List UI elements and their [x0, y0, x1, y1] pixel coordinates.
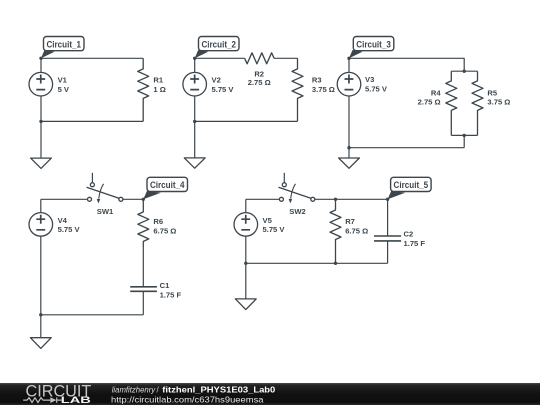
wire: [142, 292, 144, 315]
svg-text:C2: C2: [404, 229, 414, 238]
svg-text:3.75 Ω: 3.75 Ω: [312, 85, 335, 94]
wire: [40, 236, 42, 314]
svg-text:R1: R1: [153, 76, 163, 85]
svg-text:R7: R7: [345, 217, 355, 226]
switch SW1: [87, 173, 123, 204]
wire: [41, 314, 144, 316]
junction: [39, 120, 42, 123]
svg-text:5.75 V: 5.75 V: [263, 225, 286, 234]
node D (Circuit_4 net): [142, 198, 145, 201]
wire: [349, 147, 464, 149]
svg-text:SW2: SW2: [289, 207, 305, 216]
wire: [41, 120, 143, 122]
voltage source V3: [337, 72, 361, 96]
wire: [348, 58, 350, 72]
svg-text:1 Ω: 1 Ω: [153, 85, 165, 94]
svg-text:5 V: 5 V: [58, 85, 70, 94]
svg-text:6.75 Ω: 6.75 Ω: [153, 226, 176, 235]
svg-text:V1: V1: [58, 76, 68, 85]
svg-text:1.75 F: 1.75 F: [404, 239, 426, 248]
capacitor C2: [374, 236, 401, 241]
wire: [245, 236, 247, 263]
voltage source V1: [29, 72, 53, 96]
wire: [41, 57, 143, 59]
wire: [195, 120, 298, 122]
svg-text:fitzhenl_PHYS1E03_Lab0: fitzhenl_PHYS1E03_Lab0: [162, 385, 276, 394]
junction: [244, 262, 247, 265]
resistor R4: [446, 71, 457, 135]
ground: [184, 121, 205, 168]
svg-text:R3: R3: [312, 76, 322, 85]
svg-text:Circuit_4: Circuit_4: [150, 180, 185, 190]
wire: [451, 70, 477, 72]
svg-text:SW1: SW1: [97, 207, 114, 216]
svg-text:http://circuitlab.com/c637hs9u: http://circuitlab.com/c637hs9ueemsa: [111, 394, 264, 404]
wire: [315, 198, 388, 200]
wire: [246, 262, 388, 264]
node B (Circuit_2 net): [193, 57, 196, 60]
svg-text:Circuit_2: Circuit_2: [201, 39, 236, 49]
svg-text:6.75 Ω: 6.75 Ω: [345, 227, 368, 236]
wire: [387, 241, 389, 263]
svg-text:2.75 Ω: 2.75 Ω: [418, 98, 441, 107]
net label Circuit_2: [195, 37, 239, 59]
voltage source V4: [29, 213, 53, 237]
resistor R2: [245, 53, 274, 64]
svg-text:1.75 F: 1.75 F: [160, 291, 182, 300]
resistor R5: [472, 71, 483, 135]
wire: [274, 57, 297, 59]
wire: [246, 198, 280, 200]
svg-text:LAB: LAB: [61, 395, 92, 405]
svg-text:R5: R5: [487, 88, 497, 97]
node C (Circuit_3 net): [347, 57, 350, 60]
svg-text:5.75 V: 5.75 V: [212, 85, 235, 94]
net label Circuit_5: [388, 177, 432, 199]
svg-text:R4: R4: [431, 88, 441, 97]
voltage source V2: [183, 72, 207, 96]
net label Circuit_3: [349, 37, 394, 59]
ground: [235, 263, 256, 309]
switch SW2: [279, 173, 315, 204]
footer bar: [0, 383, 540, 405]
wire: [348, 96, 350, 148]
junction: [463, 134, 466, 137]
wire: [195, 57, 245, 59]
wire: [463, 135, 465, 147]
resistor R3: [292, 58, 303, 121]
wire: [387, 199, 389, 236]
svg-text:Circuit_1: Circuit_1: [46, 39, 81, 49]
svg-text:Circuit_3: Circuit_3: [356, 39, 391, 49]
junction: [334, 262, 337, 265]
svg-text:Circuit_5: Circuit_5: [394, 180, 429, 190]
svg-text:V5: V5: [263, 216, 273, 225]
ground: [30, 315, 51, 349]
net label Circuit_4: [143, 177, 187, 199]
resistor R1: [138, 58, 149, 121]
resistor R7: [330, 199, 341, 263]
voltage source V5: [234, 213, 258, 237]
wire: [451, 134, 477, 136]
junction: [193, 120, 196, 123]
svg-text:3.75 Ω: 3.75 Ω: [487, 98, 510, 107]
wire: [123, 198, 143, 200]
junction: [39, 313, 42, 316]
svg-text:V2: V2: [212, 76, 221, 85]
svg-text:V4: V4: [58, 216, 68, 225]
wire: [40, 96, 42, 121]
node A (Circuit_1 net): [39, 57, 42, 60]
capacitor C1: [130, 287, 157, 292]
node E (Circuit_5 net): [386, 198, 389, 201]
ground: [339, 148, 360, 169]
ground: [31, 121, 52, 168]
wire: [349, 58, 464, 71]
wire: [142, 247, 144, 287]
junction: [347, 146, 350, 149]
svg-text:5.75 V: 5.75 V: [58, 225, 81, 234]
logo resistor-diode symbol: [23, 397, 61, 403]
wire: [40, 58, 42, 72]
wire: [41, 198, 88, 200]
wire: [245, 199, 247, 212]
net label Circuit_1: [41, 37, 84, 59]
svg-text:C1: C1: [160, 281, 170, 290]
wire: [194, 96, 196, 121]
wire: [40, 199, 42, 212]
junction: [463, 70, 466, 73]
wire: [194, 58, 196, 72]
svg-text:2.75 Ω: 2.75 Ω: [248, 78, 271, 87]
junction: [334, 198, 337, 201]
svg-text:V3: V3: [365, 75, 374, 84]
svg-text:R6: R6: [153, 217, 163, 226]
resistor R6: [138, 199, 149, 247]
svg-text:liamfitzhenry: liamfitzhenry: [112, 385, 156, 394]
svg-text:5.75 V: 5.75 V: [365, 85, 388, 94]
